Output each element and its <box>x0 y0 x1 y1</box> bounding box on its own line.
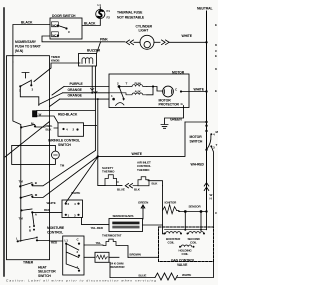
svg-text:B: B <box>35 181 38 185</box>
moisture control unit <box>47 200 83 234</box>
svg-text:THERMO: THERMO <box>137 168 150 172</box>
coil booster <box>164 232 183 245</box>
svg-text:COIL: COIL <box>168 240 175 244</box>
svg-text:WHITE: WHITE <box>132 152 143 156</box>
wire timer A to moisture control <box>32 211 62 213</box>
wire selector to resistor <box>84 256 95 258</box>
junction buzzer/orange <box>91 92 93 94</box>
svg-text:YEL-RED: YEL-RED <box>91 226 104 230</box>
svg-text:SENSOR: SENSOR <box>189 204 202 208</box>
wire feeds into valve <box>185 212 206 230</box>
svg-text:SWITCH: SWITCH <box>58 143 71 147</box>
connector chevrons safety/air <box>125 184 132 188</box>
sensor <box>179 204 208 213</box>
gas control valve box dashed <box>159 227 214 262</box>
svg-text:C: C <box>215 211 218 215</box>
svg-text:BLACK: BLACK <box>21 21 33 25</box>
wire black from L1 to door switch <box>13 25 50 63</box>
connector chevrons on neutral <box>204 183 209 191</box>
svg-text:WH-RED: WH-RED <box>191 163 205 167</box>
switch timer contact M <box>20 121 36 128</box>
svg-text:(M-N): (M-N) <box>15 49 23 53</box>
svg-text:NEUTRAL: NEUTRAL <box>197 6 213 10</box>
svg-text:PROTECTOR: PROTECTOR <box>159 103 180 107</box>
svg-text:1: 1 <box>111 94 113 98</box>
right margin fragments <box>215 23 219 215</box>
svg-text:MOTOR: MOTOR <box>190 135 203 139</box>
svg-text:BLK: BLK <box>152 182 159 186</box>
thermo air inlet control <box>137 161 163 186</box>
wire contact3 down to gas valve <box>211 146 213 227</box>
connector F B terminals <box>29 225 35 232</box>
svg-text:SWITCH: SWITCH <box>190 140 203 144</box>
switch timer contact L-H <box>16 235 38 242</box>
svg-text:NOT RESETABLE: NOT RESETABLE <box>117 15 145 19</box>
wire door switch to thermal fuse <box>82 19 100 26</box>
svg-text:THERMAL FUSE: THERMAL FUSE <box>117 11 143 15</box>
svg-text:M: M <box>216 130 219 134</box>
buzzer <box>34 42 101 82</box>
svg-text:2: 2 <box>73 128 75 132</box>
wire white bottom <box>178 262 214 278</box>
svg-text:KNOB: KNOB <box>51 59 60 63</box>
svg-text:RED: RED <box>44 208 51 212</box>
svg-text:1: 1 <box>68 213 70 217</box>
wire tangle left of motor <box>39 87 64 107</box>
resistor 24k <box>95 252 125 269</box>
svg-text:WHITE: WHITE <box>182 34 193 38</box>
svg-text:PURPLE: PURPLE <box>70 82 84 86</box>
door switch S1 <box>50 14 82 39</box>
wire selector to thermostat yel <box>84 244 103 246</box>
svg-text:H: H <box>36 235 38 239</box>
wire white light to neutral <box>169 41 207 43</box>
connector chevrons left of light <box>126 40 133 45</box>
svg-text:BROWN: BROWN <box>130 253 141 257</box>
motor internals <box>109 81 163 105</box>
svg-text:C: C <box>77 237 80 241</box>
svg-text:F2: F2 <box>107 15 111 19</box>
svg-text:L1: L1 <box>98 3 102 7</box>
svg-text:BLUE: BLUE <box>117 188 125 192</box>
wire RD to heat selector <box>37 240 63 243</box>
coil holding <box>179 245 195 256</box>
svg-text:3: 3 <box>32 88 34 92</box>
switch timer contact M2 <box>20 193 38 199</box>
svg-text:RESISTOR: RESISTOR <box>110 265 125 269</box>
svg-text:SWITCH: SWITCH <box>38 274 51 278</box>
wire red-black to buzzer line <box>37 111 96 123</box>
svg-text:MOISTURE: MOISTURE <box>47 226 65 230</box>
switch timer contact A <box>19 209 38 226</box>
junction white node <box>97 155 99 157</box>
svg-text:L: L <box>16 236 18 240</box>
svg-text:RED: RED <box>51 240 58 244</box>
wire motor to neutral top of motor switch <box>185 121 207 123</box>
wire green + ground motor <box>165 106 184 125</box>
svg-text:IGNITOR: IGNITOR <box>165 200 178 204</box>
svg-text:RED-BLACK: RED-BLACK <box>58 112 78 116</box>
wire orange 1 <box>63 92 109 94</box>
svg-text:TIMER: TIMER <box>23 261 34 265</box>
wire red-blk to wrinkle switch <box>35 127 58 128</box>
svg-text:E: E <box>215 89 217 93</box>
ground <box>161 125 168 129</box>
wire purple <box>64 86 109 88</box>
wire white motor to neutral <box>181 91 207 93</box>
switch timer contact B <box>19 179 38 187</box>
svg-text:NO: NO <box>52 23 57 27</box>
svg-text:E: E <box>215 23 217 27</box>
svg-text:L1: L1 <box>65 238 69 242</box>
wire diagonal left <box>5 122 50 158</box>
svg-text:A: A <box>35 213 38 217</box>
svg-text:H: H <box>210 197 212 201</box>
thermal fuse F <box>96 3 145 19</box>
svg-text:PUSH TO START: PUSH TO START <box>15 44 42 48</box>
resistor ignitor zigzag <box>155 273 178 280</box>
wire wrinkle to white node <box>84 125 97 127</box>
svg-text:2: 2 <box>77 250 79 254</box>
svg-text:CONTROL: CONTROL <box>47 230 63 234</box>
connector chevrons right of light <box>162 40 170 45</box>
left border <box>3 8 5 276</box>
svg-text:E: E <box>215 54 217 58</box>
svg-text:COIL: COIL <box>182 252 189 256</box>
svg-text:GAS CONTROL: GAS CONTROL <box>171 258 195 262</box>
timer motor TM <box>12 145 65 167</box>
heat selector switch <box>38 236 84 278</box>
wire inside timer from push contact <box>20 86 39 105</box>
wire buzzer drops <box>92 66 98 156</box>
svg-text:G: G <box>181 102 184 106</box>
wire blue left end <box>109 262 111 277</box>
svg-text:2: 2 <box>117 82 119 86</box>
svg-text:BLACK: BLACK <box>84 22 96 26</box>
switch push-to-start contacts <box>19 73 34 93</box>
svg-text:SENSOR BARS: SENSOR BARS <box>113 214 134 218</box>
wire timer rail left <box>13 62 21 241</box>
svg-text:WHITE: WHITE <box>47 201 56 205</box>
svg-text:THERMOSTAT: THERMOSTAT <box>102 233 122 237</box>
wire orange 2 <box>60 98 109 100</box>
switch motor switch <box>190 125 216 152</box>
svg-text:K: K <box>215 43 218 47</box>
motor protector <box>159 86 184 107</box>
svg-text:M: M <box>35 193 38 197</box>
svg-text:TM: TM <box>60 164 65 168</box>
wire to ignitor <box>163 186 165 234</box>
svg-text:4: 4 <box>74 202 76 206</box>
wire sensor bars to ignitor line <box>143 224 163 226</box>
sensor bars <box>109 214 143 232</box>
svg-text:4: 4 <box>66 128 68 132</box>
diagonal wires timer to white junction <box>32 151 98 203</box>
svg-text:THERMO: THERMO <box>102 170 115 174</box>
svg-text:DOOR SWITCH: DOOR SWITCH <box>52 14 76 18</box>
svg-text:B: B <box>29 228 32 232</box>
wire resistor to gas valve <box>109 256 159 258</box>
thermo safety <box>102 166 122 186</box>
ground green sensor <box>138 200 148 219</box>
switch wrinkle control <box>48 123 84 147</box>
svg-text:C: C <box>175 87 178 91</box>
svg-text:T: T <box>126 82 128 86</box>
svg-text:T: T <box>216 143 218 147</box>
svg-text:MOTOR: MOTOR <box>172 70 185 74</box>
svg-text:C: C <box>68 30 71 34</box>
connector W terminal <box>33 111 42 117</box>
svg-text:3: 3 <box>74 213 76 217</box>
svg-text:BUZZER: BUZZER <box>87 48 101 52</box>
svg-text:ORANGE: ORANGE <box>68 93 83 97</box>
svg-text:BLUE: BLUE <box>139 273 147 277</box>
svg-text:BLK: BLK <box>46 128 53 132</box>
svg-text:BLK: BLK <box>134 188 141 192</box>
svg-text:C: C <box>215 49 218 53</box>
svg-text:WHITE: WHITE <box>194 87 205 91</box>
wire white junction down to safety thermo <box>98 156 105 185</box>
svg-text:GREEN: GREEN <box>138 200 148 204</box>
svg-text:K: K <box>215 67 218 71</box>
wire pink: door NC around to cylinder light <box>42 36 125 42</box>
thermostat <box>96 233 122 245</box>
svg-text:YEL: YEL <box>96 241 102 245</box>
lamp cylinder light <box>134 24 160 49</box>
ignitor <box>163 200 180 213</box>
svg-text:PINK: PINK <box>100 38 108 42</box>
svg-text:Caution: Label all wires prior: Caution: Label all wires prior to discon… <box>6 279 156 283</box>
wire white long feed <box>98 122 185 156</box>
junction light/neutral <box>205 41 207 43</box>
svg-text:COIL: COIL <box>190 240 197 244</box>
svg-text:GREEN: GREEN <box>170 117 182 121</box>
wire thermostat to brown <box>119 246 128 258</box>
timer box <box>7 56 50 260</box>
svg-text:MOMENTARY: MOMENTARY <box>15 40 37 44</box>
svg-text:WHITE: WHITE <box>71 191 80 195</box>
svg-text:F1: F1 <box>107 9 111 13</box>
coil second <box>187 232 206 245</box>
svg-text:2: 2 <box>68 202 70 206</box>
svg-text:ORANGE: ORANGE <box>68 88 83 92</box>
wire bottom blue/white <box>110 277 155 279</box>
svg-text:WRINKLE CONTROL: WRINKLE CONTROL <box>48 138 80 142</box>
svg-text:LIGHT: LIGHT <box>139 29 150 33</box>
wire moisture to sensor red <box>82 218 110 225</box>
svg-text:VALVE: VALVE <box>177 263 188 267</box>
svg-text:WHITE: WHITE <box>182 273 191 277</box>
motor box <box>109 74 189 108</box>
